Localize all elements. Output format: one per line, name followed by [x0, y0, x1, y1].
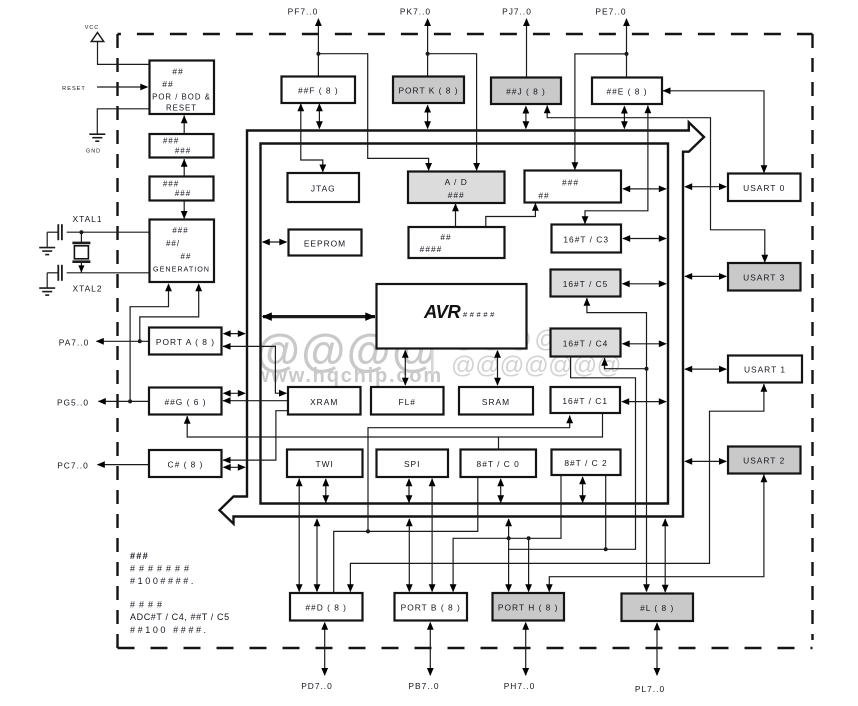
svg-text:C# ( 8 ): C# ( 8 )	[168, 460, 204, 470]
svg-text:##: ##	[181, 252, 192, 261]
arrow CPU SRAM	[494, 350, 501, 386]
svg-text:##J ( 8 ): ##J ( 8 )	[506, 87, 546, 97]
block USART3	[728, 263, 801, 291]
svg-text:8#T / C 2: 8#T / C 2	[564, 458, 607, 468]
wire TWI to bus	[322, 478, 329, 503]
wire PORT G to XRAM	[223, 400, 288, 402]
svg-text:##G ( 6 ): ##G ( 6 )	[164, 397, 206, 407]
capacitor XTAL2	[67, 272, 149, 274]
pin arrow PH7..0	[522, 622, 529, 676]
svg-text:VCC: VCC	[85, 25, 99, 31]
wire PF to JTAG	[301, 104, 323, 172]
svg-text:PORT B ( 8 ): PORT B ( 8 )	[401, 603, 461, 613]
wire PK pin stub	[427, 20, 429, 77]
svg-text:PA7..0: PA7..0	[59, 338, 90, 348]
capacitor XTAL1	[67, 231, 149, 233]
svg-text:PG5..0: PG5..0	[57, 398, 89, 408]
wire PF to ADC	[318, 54, 428, 170]
block port F	[282, 77, 356, 104]
arrow CPU FLASH	[402, 350, 409, 386]
bus arrow port E	[621, 106, 628, 130]
svg-text:##E ( 8 ): ##E ( 8 )	[606, 87, 647, 97]
wire TC2 to bus	[579, 476, 586, 503]
svg-text:###: ###	[130, 551, 149, 561]
wire VCC to POR	[98, 42, 149, 65]
wire PK to ADC	[428, 54, 477, 170]
block TWI	[287, 450, 363, 478]
wire PE to USART0	[663, 91, 764, 173]
pin rail PC7..0	[98, 464, 149, 466]
svg-text:XRAM: XRAM	[310, 397, 338, 407]
wire bus to port L	[662, 518, 669, 593]
svg-text:ADC#T / C4, ##T / C5: ADC#T / C4, ##T / C5	[130, 612, 230, 622]
svg-text:##: ##	[538, 191, 549, 201]
svg-text:16#T / C5: 16#T / C5	[563, 279, 609, 289]
svg-text:XTAL2: XTAL2	[73, 284, 103, 294]
wire TC5 to port L	[587, 298, 647, 592]
svg-text:#####: #####	[463, 310, 497, 319]
ground XTAL1	[46, 232, 48, 247]
wire TC2 net to ports B H	[453, 476, 561, 592]
svg-text:##: ##	[172, 67, 184, 77]
ground symbol GND	[89, 133, 105, 135]
svg-text:FL#: FL#	[398, 397, 415, 407]
wire bus to port H	[505, 518, 512, 592]
block AD converter	[408, 172, 505, 204]
note text	[130, 551, 230, 635]
bus arrow timer3	[622, 235, 667, 242]
block timer5	[551, 270, 621, 297]
pin arrow PB7..0	[427, 622, 434, 676]
pin arrow PD7..0	[321, 622, 328, 676]
wire PE to comparator	[575, 54, 627, 170]
wire SPI to port B	[431, 479, 433, 592]
wire TC4 to port H	[509, 358, 636, 550]
bus arrow port G	[223, 390, 246, 397]
svg-text:###: ###	[175, 147, 191, 156]
wire PA rail to clock generation	[140, 286, 199, 342]
block FLASH	[371, 387, 444, 415]
bus arrow timer5	[622, 280, 667, 287]
svg-text:TWI: TWI	[316, 459, 334, 469]
block timer3	[552, 225, 622, 253]
svg-text:8#T / C 0: 8#T / C 0	[477, 459, 520, 469]
svg-text:PORT K ( 8 ): PORT K ( 8 )	[398, 86, 458, 96]
svg-text:EEPROM: EEPROM	[304, 239, 346, 249]
block port G	[149, 388, 222, 415]
block POR BOD RESET	[150, 61, 215, 115]
wire PJ to USART3	[547, 106, 765, 263]
svg-text:XTAL1: XTAL1	[73, 214, 103, 224]
svg-text:#L ( 8 ): #L ( 8 )	[640, 603, 674, 613]
svg-text:PORT H ( 8 ): PORT H ( 8 )	[498, 603, 559, 613]
block timer2	[552, 450, 621, 476]
pin rail PG5..0	[99, 400, 149, 402]
crystal Y1	[79, 230, 83, 234]
svg-text:#######: #######	[130, 564, 193, 574]
wire bus to port D	[314, 518, 321, 592]
svg-text:16#T / C3: 16#T / C3	[563, 235, 609, 245]
svg-text:PORT A ( 8 ): PORT A ( 8 )	[156, 337, 215, 347]
svg-text:PH7..0: PH7..0	[504, 681, 536, 691]
svg-text:PD7..0: PD7..0	[301, 681, 333, 691]
svg-text:###: ###	[172, 226, 188, 235]
block AVR CPU	[377, 284, 527, 349]
bus arrow USART0	[684, 183, 727, 190]
block port D	[290, 593, 363, 621]
svg-text:PC7..0: PC7..0	[57, 461, 89, 471]
bus arrow timer1	[621, 398, 667, 405]
dashed chip boundary	[118, 34, 813, 648]
wire USART1 to port D	[350, 384, 764, 592]
wire TC2 drop	[605, 476, 607, 549]
wire PJ pin stub	[526, 20, 528, 78]
ground XTAL2	[46, 273, 48, 288]
bus arrow CPU thick	[262, 312, 376, 321]
svg-text:###: ###	[163, 179, 179, 188]
svg-text:RESET: RESET	[62, 86, 86, 92]
bus arrow USART2	[684, 458, 727, 465]
svg-text:SPI: SPI	[404, 459, 421, 469]
wire TC0 to bus	[497, 478, 504, 503]
svg-text:####: ####	[130, 600, 166, 610]
svg-text:###: ###	[562, 178, 579, 188]
wire PORT A to XRAM	[223, 346, 287, 393]
svg-text:####: ####	[420, 244, 443, 254]
wire SPI to bus	[406, 478, 413, 503]
svg-text:POR / BOD &: POR / BOD &	[152, 93, 211, 102]
bus arrow timer4	[622, 340, 667, 347]
block clock generation	[150, 220, 215, 283]
wire PE pin stub	[626, 20, 628, 78]
bus arrow EEPROM	[262, 239, 288, 246]
wire RESET to POR	[97, 86, 147, 88]
watchdog chain arrows	[183, 116, 185, 135]
svg-text:AVR: AVR	[423, 301, 461, 322]
block USART2	[728, 447, 801, 474]
block timer4	[551, 329, 621, 357]
svg-text:##/: ##/	[166, 239, 180, 248]
bus arrow port J	[523, 106, 530, 130]
block watchdog oscillator	[150, 177, 214, 201]
wire PORT C to XRAM	[223, 411, 288, 460]
svg-text:PK7..0: PK7..0	[400, 7, 431, 17]
bus arrow port A	[223, 330, 246, 337]
svg-text:GND: GND	[86, 149, 101, 155]
bus arrow port K	[424, 105, 431, 130]
wire PG rail to clock generation	[130, 286, 168, 402]
wire bandgap to comparator	[486, 204, 536, 228]
bus arrow port F	[316, 103, 323, 129]
svg-text:##100 ####.: ##100 ####.	[130, 625, 209, 635]
svg-text:A / D: A / D	[445, 177, 468, 187]
block SRAM	[459, 387, 533, 415]
bus arrow comparator	[622, 186, 667, 193]
wire bandgap to ADC	[455, 204, 457, 227]
svg-text:SRAM: SRAM	[482, 397, 510, 407]
svg-text:##F ( 8 ): ##F ( 8 )	[298, 86, 339, 96]
svg-text:PB7..0: PB7..0	[408, 681, 439, 691]
wire branch to TC4	[605, 358, 647, 369]
block PORT B	[395, 593, 468, 621]
VCC symbol	[91, 33, 103, 42]
svg-text:###: ###	[163, 137, 179, 146]
block timer1	[551, 387, 621, 413]
block timer0	[461, 450, 537, 478]
svg-text:RESET: RESET	[166, 104, 197, 113]
block XRAM	[288, 387, 361, 415]
svg-text:USART 2: USART 2	[743, 456, 785, 466]
svg-text:USART 0: USART 0	[743, 183, 785, 193]
wire bus to port B	[406, 518, 413, 592]
block port J	[491, 78, 561, 105]
block SPI	[377, 450, 449, 478]
block PORT K	[393, 77, 464, 104]
svg-text:USART 1: USART 1	[744, 365, 786, 375]
svg-text:www.hqchip.com: www.hqchip.com	[253, 365, 443, 387]
wire TC1 stem	[368, 416, 570, 532]
block internal bandgap	[409, 227, 505, 258]
svg-text:###: ###	[175, 189, 191, 198]
block analog comparator	[525, 171, 622, 203]
block EEPROM	[289, 230, 362, 256]
wire net G-TC0-TC1	[187, 414, 602, 438]
block port L	[622, 594, 694, 622]
data bus loop	[220, 122, 705, 523]
block USART1	[728, 356, 802, 383]
pin arrow PL7..0	[654, 622, 661, 676]
block JTAG	[288, 173, 360, 202]
bus arrow USART1	[684, 366, 727, 373]
svg-text:##: ##	[162, 79, 174, 89]
block USART0	[728, 174, 801, 202]
wire TWI to port D	[298, 479, 300, 592]
svg-text:PF7..0: PF7..0	[288, 7, 319, 17]
svg-text:#100####.: #100####.	[130, 576, 196, 586]
bus arrow USART3	[684, 273, 727, 280]
wire POR to GND	[97, 109, 148, 134]
block port E	[592, 78, 662, 105]
svg-text:PL7..0: PL7..0	[635, 684, 665, 694]
svg-text:JTAG: JTAG	[311, 184, 336, 194]
block port C	[149, 450, 222, 477]
svg-text:###: ###	[448, 190, 465, 200]
svg-text:##D ( 8 ): ##D ( 8 )	[305, 603, 347, 613]
svg-text:USART 3: USART 3	[743, 273, 785, 283]
svg-text:##: ##	[440, 232, 451, 242]
block PORT H	[493, 593, 565, 621]
block watchdog timer	[150, 134, 214, 158]
pin rail PA7..0	[97, 340, 149, 342]
svg-text:PE7..0: PE7..0	[595, 7, 626, 17]
svg-text:16#T / C1: 16#T / C1	[562, 396, 608, 406]
svg-text:PJ7..0: PJ7..0	[502, 7, 532, 17]
wire channel to port D	[334, 477, 478, 593]
block PORT A	[149, 328, 222, 355]
bus arrow port C	[223, 464, 246, 471]
wire PF pin stub	[317, 20, 319, 77]
wire PE to timer3	[585, 106, 648, 224]
wire USART2 to port H	[549, 475, 764, 592]
svg-text:GENERATION: GENERATION	[153, 265, 210, 274]
svg-text:16#T / C4: 16#T / C4	[563, 339, 609, 349]
